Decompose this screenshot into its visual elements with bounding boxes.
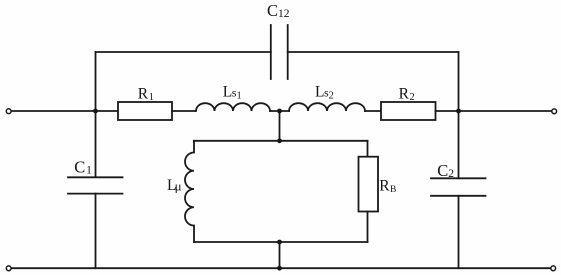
wire C1 down to bottom rail — [95, 194, 97, 269]
node C junction — [456, 109, 461, 114]
wire loop right lower — [367, 212, 369, 243]
capacitor C2 — [431, 178, 486, 196]
wire top-left vertical (node A up) — [95, 52, 97, 111]
terminal T2 (output, top-right) — [552, 109, 557, 114]
wire inner loop top — [194, 140, 368, 142]
wire top rail left — [96, 51, 271, 53]
wire bottom rail — [11, 267, 550, 269]
capacitor C12 — [271, 25, 288, 79]
terminal T1 (input, top-left) — [6, 109, 11, 114]
wire Ls2 to R2 — [365, 110, 381, 112]
wire R1 to Ls1 — [172, 110, 195, 112]
node D junction (loop bottom) — [277, 240, 282, 245]
wire node A down to C1 — [95, 111, 97, 177]
wire loop right upper — [367, 141, 369, 157]
wire input to node A — [11, 110, 118, 112]
wire top-right vertical (down to node C) — [458, 52, 460, 111]
node E junction (bottom rail) — [277, 266, 282, 271]
svg-text:Lμ: Lμ — [167, 177, 182, 194]
resistor RB — [359, 157, 379, 212]
wire inner loop bottom — [194, 241, 368, 243]
wire node D down to bottom rail — [279, 242, 281, 268]
node loop-top junction — [277, 138, 282, 143]
node B junction — [277, 109, 282, 114]
wire C2 down to bottom rail — [458, 196, 460, 268]
wire node C down to C2 — [458, 111, 460, 178]
inductor Lmu — [185, 141, 194, 242]
inductor Ls2 — [289, 103, 365, 111]
inductor Ls1 — [196, 103, 270, 111]
wire node B down to inner loop top — [279, 111, 281, 141]
terminal T3 (bottom-left) — [6, 266, 11, 271]
node A junction — [93, 109, 98, 114]
terminal T4 (bottom-right) — [551, 266, 556, 271]
resistor R2 — [381, 102, 436, 120]
wire top rail right — [288, 51, 459, 53]
capacitor C1 — [68, 177, 123, 193]
resistor R1 — [118, 102, 172, 120]
wire Ls1 to Ls2 through node B — [270, 110, 289, 112]
wire R2 to node C and output — [436, 110, 552, 112]
